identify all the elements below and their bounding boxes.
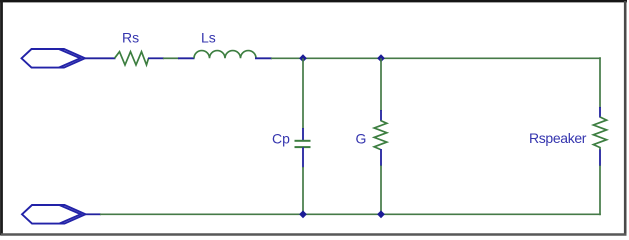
wire Ls to node A (green) [271, 57, 304, 59]
border frame bottom [1, 233, 627, 236]
wire node A to node B (green) [302, 57, 382, 59]
port P1 (top input port) [22, 49, 86, 68]
wire bottom rail (green) [100, 213, 601, 215]
resistor G lower lead (navy) [380, 149, 382, 166]
svg-text:Rs: Rs [122, 30, 139, 46]
border frame left [0, 0, 3, 236]
node A junction dot (top of Cp) [299, 54, 307, 62]
capacitor Cp lower lead (navy) [302, 147, 304, 167]
border frame right [624, 1, 627, 235]
node C junction dot (bottom of Cp) [299, 210, 307, 218]
wire node B to right corner (green) [380, 57, 601, 59]
port P2 (bottom input port) [22, 205, 86, 224]
svg-text:Ls: Ls [201, 29, 216, 45]
resistor G zigzag [374, 121, 387, 150]
capacitor Cp upper lead (navy) [302, 128, 304, 141]
inductor Ls [194, 51, 256, 59]
wire Cp branch lower (green) [302, 167, 304, 214]
wire G branch lower (green) [380, 166, 382, 215]
resistor Rspeaker upper lead (navy) [599, 107, 601, 118]
capacitor Cp bottom plate [295, 146, 311, 148]
resistor Rspeaker zigzag [593, 117, 606, 150]
wire right branch upper (green) [599, 57, 601, 108]
border frame top [0, 0, 627, 2]
resistor G upper lead (navy) [380, 110, 382, 121]
wire right branch lower (green) [599, 166, 601, 216]
capacitor Cp top plate [295, 140, 311, 142]
node B junction dot (top of G) [377, 54, 385, 62]
node D junction dot (bottom of G) [377, 210, 385, 218]
wire port P1 to Rs (navy lead) [85, 57, 116, 59]
wire port P2 lead (navy) [86, 213, 102, 215]
wire G branch upper (green) [380, 58, 382, 111]
resistor Rspeaker lower lead (navy) [599, 150, 601, 167]
svg-text:Rspeaker: Rspeaker [529, 130, 587, 146]
wire Cp branch upper (green) [302, 58, 304, 129]
wire Ls lead right (navy) [255, 57, 272, 59]
wire Ls lead left (navy) [178, 57, 195, 59]
svg-text:G: G [356, 131, 367, 147]
svg-text:Cp: Cp [272, 131, 290, 147]
wire Rs lead right (navy) [148, 57, 164, 59]
wire Rs to Ls (green) [163, 57, 179, 59]
resistor Rs [115, 52, 149, 65]
